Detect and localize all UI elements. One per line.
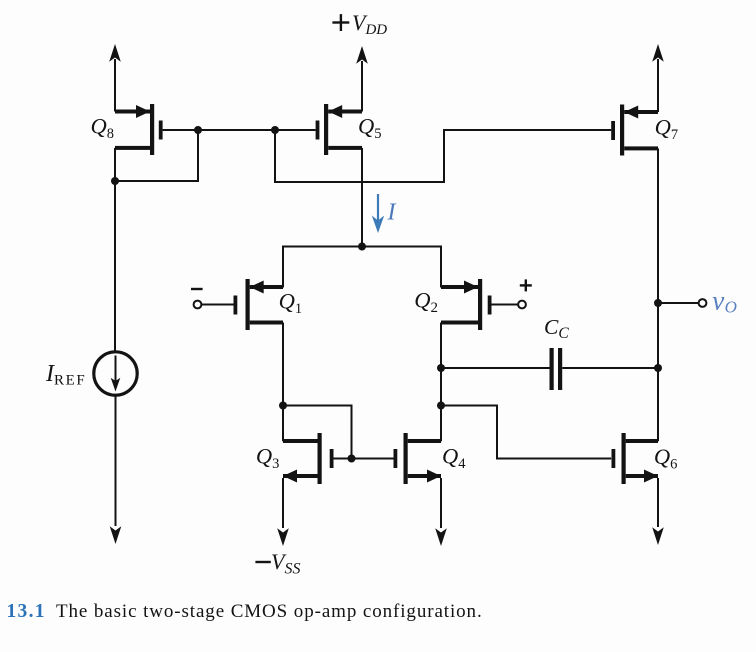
current source IREF: [45, 352, 137, 395]
wire CC to output rail: [562, 367, 658, 369]
transistor Q7: [611, 105, 678, 156]
svg-text:Q4: Q4: [442, 444, 466, 472]
svg-text:Q6: Q6: [654, 444, 678, 472]
svg-text:Q5: Q5: [358, 114, 382, 142]
wire tail line: [283, 247, 441, 288]
transistor Q3: [256, 433, 334, 484]
+VDD supply label: [332, 10, 387, 38]
wire left rail Q8 drain to IREF: [114, 148, 116, 353]
VDD arrow middle (Q5 source): [356, 46, 368, 112]
wire Q3 gate-drain tie: [283, 406, 352, 459]
transistor Q5: [316, 104, 382, 155]
svg-text:Q8: Q8: [91, 114, 115, 142]
transistor Q8: [91, 104, 163, 155]
svg-text:Q1: Q1: [279, 289, 303, 317]
svg-text:I: I: [387, 200, 397, 226]
output terminal vO: [658, 286, 737, 317]
node output vO tap: [654, 299, 662, 307]
transistor Q4: [394, 433, 467, 484]
wire Q8 gate-drain tie: [115, 130, 198, 181]
wire mirror gates Q3-Q4: [334, 458, 394, 460]
wire Q1 drain down: [282, 323, 284, 442]
wire Q5 drain to tail node: [361, 148, 363, 247]
VDD arrow right (Q7 source): [652, 44, 664, 112]
wire Q2 drain down: [440, 323, 442, 442]
wire to Q7 gate: [275, 130, 611, 182]
node Q1 drain mirror tap: [279, 402, 287, 410]
svg-text:Q2: Q2: [414, 288, 438, 316]
svg-text:VSS: VSS: [271, 549, 300, 578]
node Q2 drain CC tap: [437, 364, 445, 372]
transistor Q2: [414, 279, 491, 330]
svg-text:vO: vO: [712, 286, 737, 317]
wire Q4 source to VSS arrow: [435, 478, 447, 546]
node CC right: [654, 364, 662, 372]
transistor Q1: [234, 279, 303, 330]
svg-text:Q7: Q7: [655, 115, 679, 143]
node tail: [358, 243, 366, 251]
wire to Q6 gate: [441, 406, 611, 459]
node Q2 drain stage output: [437, 402, 445, 410]
input terminal minus: [191, 288, 234, 309]
transistor Q6: [612, 433, 678, 484]
wire gate bus Q8-Q5: [163, 129, 316, 131]
wire output rail: [657, 148, 659, 441]
wire Q6 source to VSS arrow: [652, 478, 664, 545]
svg-text:13.1: 13.1: [7, 601, 46, 622]
svg-text:CC: CC: [544, 315, 569, 342]
node mirror gate: [348, 455, 356, 463]
node Q8 drain: [111, 177, 119, 185]
VDD arrow left (Q8 source): [109, 44, 121, 112]
svg-text:VDD: VDD: [352, 10, 387, 38]
svg-text:The basic two-stage CMOS op-am: The basic two-stage CMOS op-amp configur…: [56, 601, 483, 622]
capacitor CC: [544, 315, 569, 390]
node at gate bus left: [194, 126, 202, 134]
input terminal plus: [492, 279, 532, 308]
wire Q3 source to VSS arrow: [277, 478, 289, 546]
svg-text:IREF: IREF: [45, 361, 86, 388]
wire Q2 drain to CC: [441, 367, 550, 369]
current I annotation arrow: [372, 194, 397, 233]
VSS supply label: [255, 561, 270, 563]
node at gate bus right: [271, 126, 279, 134]
svg-text:Q3: Q3: [256, 444, 280, 472]
wire IREF to VSS arrow: [110, 395, 122, 544]
